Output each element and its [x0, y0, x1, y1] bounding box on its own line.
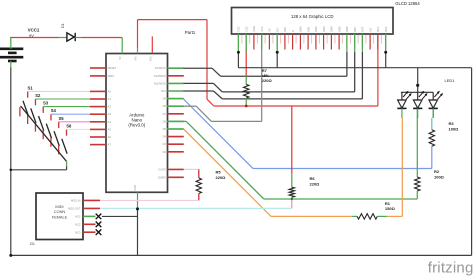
resistor R7 220 — [244, 50, 249, 106]
svg-text:R2: R2 — [434, 169, 440, 174]
svg-text:FEMALE: FEMALE — [52, 214, 68, 219]
wire battery+ up — [10, 38, 12, 49]
GLCD connected pins — [238, 34, 385, 52]
svg-text:D5: D5 — [163, 127, 167, 131]
svg-text:VCC1: VCC1 — [28, 28, 40, 33]
svg-text:S5: S5 — [58, 116, 64, 121]
svg-text:R5: R5 — [216, 170, 222, 175]
Arduino Nano U1 — [106, 54, 168, 193]
svg-text:R7: R7 — [262, 68, 268, 73]
resistor R3 100 — [429, 108, 434, 146]
switch S6 — [59, 129, 67, 154]
svg-text:E: E — [291, 30, 295, 32]
wire MIDI_IN to R5 — [100, 199, 199, 201]
svg-text:fritzing: fritzing — [428, 260, 474, 277]
pin 5V — [121, 38, 123, 54]
svg-text:S2: S2 — [35, 93, 41, 98]
svg-text:D11/MOSI: D11/MOSI — [154, 81, 166, 85]
wire VCC riser to LCD — [377, 34, 379, 106]
pin GND bottom — [137, 192, 139, 209]
wire D10 to LCD (W3) — [184, 52, 363, 99]
svg-text:GND: GND — [252, 26, 256, 32]
wire LCD pin to bus — [276, 52, 278, 68]
pin D4 — [168, 136, 184, 138]
wire D6 green to R6/R2 (W6) — [167, 121, 418, 199]
label R7 — [262, 68, 273, 83]
wire S5 to A4 — [59, 121, 90, 123]
svg-text:ZI1: ZI1 — [30, 242, 35, 246]
svg-text:GND: GND — [133, 185, 137, 191]
svg-text:100Ω: 100Ω — [434, 175, 445, 180]
svg-text:CS1: CS1 — [237, 26, 241, 32]
pin NC1 — [83, 215, 96, 217]
svg-text:VO: VO — [368, 28, 372, 32]
svg-text:D2: D2 — [163, 150, 167, 154]
diode D1 — [67, 33, 75, 41]
svg-text:BLA: BLA — [376, 26, 380, 31]
wire D13 to LCD (W1) — [184, 52, 347, 76]
svg-text:100Ω: 100Ω — [449, 126, 460, 131]
svg-text:(Rev3.0): (Rev3.0) — [128, 123, 145, 128]
svg-text:RESET: RESET — [108, 66, 117, 70]
svg-text:220Ω: 220Ω — [310, 181, 321, 186]
pin A0 — [90, 90, 106, 92]
wire D9 blue to R3 (W5) — [167, 99, 432, 169]
svg-text:LED1: LED1 — [445, 78, 456, 83]
junction battery-gnd — [10, 169, 13, 172]
svg-text:A5: A5 — [108, 127, 112, 131]
wire D11 to LCD (W2) — [184, 52, 355, 92]
svg-text:MIDI_IN: MIDI_IN — [71, 199, 81, 203]
svg-text:D13/SCK: D13/SCK — [155, 66, 166, 70]
pin A6 — [90, 136, 106, 138]
pin D9 — [168, 98, 184, 100]
pin A5 — [90, 128, 106, 130]
wire battery- down — [10, 61, 12, 68]
wire LCD pin1 to bus — [237, 52, 239, 68]
junction — [384, 51, 387, 54]
svg-text:5V: 5V — [118, 56, 122, 59]
pin D1/TX — [168, 168, 184, 170]
gnd bus right edge down — [471, 68, 473, 256]
pin A1 — [90, 98, 106, 100]
svg-text:D3: D3 — [163, 142, 167, 146]
svg-text:S4: S4 — [51, 108, 57, 113]
wire S6 to A5 — [67, 128, 91, 130]
GLCD pin labels — [237, 26, 388, 32]
svg-text:MISO: MISO — [108, 74, 115, 78]
pin A3 — [90, 113, 106, 115]
svg-text:BLK: BLK — [384, 26, 388, 31]
svg-text:DB4: DB4 — [330, 26, 334, 32]
LED 1 — [397, 91, 411, 118]
svg-text:D7: D7 — [163, 112, 167, 116]
wire D5 orange to R1/LED (W7) — [167, 118, 403, 216]
svg-text:D10: D10 — [161, 89, 166, 93]
pin NC2 — [83, 223, 96, 225]
svg-text:RS: RS — [275, 28, 279, 32]
wire GND down to rail — [137, 209, 139, 256]
pin D6 — [168, 120, 184, 122]
junction — [237, 51, 240, 54]
svg-text:CS2: CS2 — [244, 26, 248, 32]
pin D12/MISO — [168, 75, 184, 77]
pin MIDI_IN — [83, 199, 100, 201]
pin MIDI_OUT — [83, 207, 100, 209]
pin RESET — [90, 67, 106, 69]
svg-text:DB7: DB7 — [353, 26, 357, 32]
svg-text:220Ω: 220Ω — [262, 78, 273, 83]
label Arduino Nano Rev3.0 — [128, 113, 145, 128]
no-connect X — [96, 214, 102, 220]
svg-text:RST: RST — [361, 26, 365, 32]
battery VCC1 9V — [0, 49, 23, 61]
pin D3 — [168, 143, 184, 145]
svg-text:A7: A7 — [108, 143, 112, 147]
svg-text:NC1: NC1 — [75, 215, 81, 219]
svg-text:DB6: DB6 — [345, 26, 349, 32]
pin D7 — [168, 113, 184, 115]
wire S3 to A2 — [43, 106, 90, 108]
resistor R5 220 — [184, 169, 202, 200]
svg-text:128 x 64 Graphic LCD: 128 x 64 Graphic LCD — [291, 14, 334, 19]
svg-text:D9: D9 — [163, 97, 167, 101]
resistor R2 100 — [415, 108, 420, 199]
svg-text:R3: R3 — [449, 121, 455, 126]
switch S4 — [43, 114, 51, 139]
svg-text:D12/MISO: D12/MISO — [154, 74, 166, 78]
svg-text:D1/TX: D1/TX — [159, 167, 167, 171]
svg-text:S1: S1 — [27, 85, 33, 90]
svg-text:DB3: DB3 — [322, 26, 326, 32]
svg-text:A0: A0 — [108, 89, 112, 93]
pin A2 — [90, 106, 106, 108]
GLCD pins — [238, 34, 385, 50]
svg-text:D6: D6 — [163, 119, 167, 123]
svg-text:VCC: VCC — [260, 26, 264, 32]
svg-text:D8: D8 — [163, 104, 167, 108]
wire S2 to A1 — [35, 98, 90, 100]
pin D0/RX — [168, 176, 184, 178]
pin D8 — [168, 105, 184, 107]
switch S1 — [20, 91, 28, 116]
svg-text:A4: A4 — [108, 120, 112, 124]
svg-text:D4: D4 — [163, 135, 167, 139]
pin D2 — [168, 151, 184, 153]
resistor R6 220 — [289, 106, 294, 208]
svg-text:A3: A3 — [108, 112, 112, 116]
svg-text:R6: R6 — [310, 176, 316, 181]
pin 3V3 stub — [151, 36, 153, 53]
svg-text:V0: V0 — [268, 28, 272, 32]
pin D5 — [168, 128, 184, 130]
label MIDI CONN FEMALE — [52, 204, 68, 219]
svg-text:NC2: NC2 — [75, 223, 81, 227]
wire D8 gray to LCD (W4) — [167, 52, 262, 121]
junction gnd-cyan — [136, 207, 139, 210]
svg-text:220Ω: 220Ω — [216, 175, 227, 180]
junction — [276, 51, 279, 54]
pin MISO — [90, 75, 106, 77]
svg-text:A2: A2 — [108, 105, 112, 109]
switch S5 — [51, 122, 59, 147]
gnd bus horizontal — [238, 67, 471, 69]
svg-text:RW: RW — [283, 27, 287, 32]
pin D10 — [168, 90, 184, 92]
svg-text:DB1: DB1 — [306, 26, 310, 32]
wire NC1 to gnd — [102, 215, 138, 217]
LED anode bar — [401, 91, 433, 93]
wire bus to LED1 — [417, 68, 419, 93]
pin A7 — [90, 144, 106, 146]
pin D11/MOSI — [168, 82, 184, 84]
wire Part1 VCC rail — [138, 19, 208, 21]
no-connect X — [96, 229, 102, 235]
wire diode to arduino 5V — [75, 37, 81, 39]
wire bus to ground — [66, 161, 68, 166]
svg-text:3V3: 3V3 — [148, 56, 152, 61]
pin VIN — [137, 48, 139, 54]
junction GND — [136, 208, 139, 211]
no-connect X — [96, 222, 102, 228]
svg-text:NC3: NC3 — [75, 230, 81, 234]
LED 2 — [413, 91, 427, 118]
svg-text:S3: S3 — [43, 101, 49, 106]
pin NC3 — [83, 231, 96, 233]
wire S1 to A0 — [28, 90, 90, 92]
svg-text:MIDI_OUT: MIDI_OUT — [68, 207, 81, 211]
svg-text:GLCD 12864: GLCD 12864 — [395, 1, 420, 6]
svg-text:150Ω: 150Ω — [385, 206, 396, 211]
svg-text:DB0: DB0 — [299, 26, 303, 32]
wire S4 to A3 — [51, 113, 90, 115]
svg-text:DB2: DB2 — [314, 26, 318, 32]
resistor R1 150 — [352, 215, 357, 217]
gnd bottom rail — [11, 254, 472, 256]
svg-text:Part1: Part1 — [185, 30, 196, 35]
svg-text:A6: A6 — [108, 135, 112, 139]
svg-text:VIN: VIN — [134, 56, 138, 60]
MIDI CONN FEMALE J1 — [36, 193, 83, 240]
wire MIDI_OUT cyan to R6 — [100, 207, 292, 209]
red VCC rail mid — [214, 105, 378, 107]
wire LCD pin to bus — [385, 52, 387, 68]
svg-text:A1: A1 — [108, 97, 112, 101]
GLCD U2 128x64 — [232, 8, 394, 35]
switch common bus — [21, 106, 67, 162]
pin A4 — [90, 121, 106, 123]
LED 3 — [429, 91, 443, 118]
pin D13/SCK — [168, 67, 184, 69]
svg-text:D0/RX: D0/RX — [158, 175, 166, 179]
wire VCC rail to diode — [10, 37, 58, 39]
switch S2 — [28, 99, 36, 124]
svg-text:D1: D1 — [61, 23, 65, 28]
svg-text:DB5: DB5 — [337, 26, 341, 32]
svg-text:S6: S6 — [66, 123, 72, 128]
junction LED feed — [416, 84, 419, 87]
switch S3 — [35, 107, 43, 132]
junction bottom left — [9, 254, 12, 257]
